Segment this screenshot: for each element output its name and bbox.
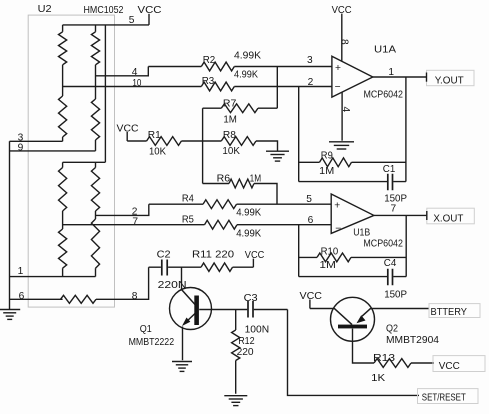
transistor Q2 [331, 297, 440, 346]
svg-text:1M: 1M [250, 173, 262, 184]
capacitor C3 [244, 293, 270, 335]
sensor bridge resistor (col A row 4) [59, 229, 67, 268]
wire R10 line [299, 256, 407, 258]
svg-text:7: 7 [132, 217, 138, 228]
svg-text:U1A: U1A [374, 44, 396, 55]
svg-text:U2: U2 [38, 4, 52, 15]
ground (Q1) [172, 362, 192, 372]
wire colB row1-row2 lead [95, 65, 97, 99]
wire U1B feedback vertical [405, 215, 407, 276]
svg-text:10K: 10K [149, 147, 166, 158]
wire pin 9 [10, 150, 96, 152]
resistor R8 [221, 130, 256, 157]
wire VCC to Q2 [310, 308, 334, 310]
svg-text:C3: C3 [244, 293, 258, 304]
svg-text:VCC: VCC [245, 250, 264, 261]
sensor bridge resistor (col B row 4) [91, 219, 99, 268]
IC body outline U2 [28, 15, 114, 307]
resistor R12 [232, 330, 255, 361]
svg-text:−: − [335, 224, 341, 235]
wire C4 line [299, 276, 407, 278]
svg-text:SET/RESET: SET/RESET [422, 392, 466, 403]
svg-text:U1B: U1B [353, 227, 370, 238]
SET/RESET port [418, 389, 479, 404]
wire pin 7 / R5 to opamp - [63, 224, 332, 226]
svg-text:100N: 100N [245, 324, 270, 335]
svg-text:BTTERY: BTTERY [431, 307, 468, 318]
capacitor C1 [383, 164, 407, 204]
VCC (R1) [117, 124, 139, 142]
resistor sensor strap [61, 295, 97, 303]
svg-text:C2: C2 [157, 250, 171, 261]
ground (U1A pin 4) [329, 142, 354, 149]
ground (R8) [266, 151, 289, 161]
capacitor C2 [157, 250, 187, 291]
svg-text:+: + [334, 200, 340, 211]
svg-text:R5: R5 [182, 214, 194, 225]
resistor R10 [317, 247, 351, 272]
wire colA row1-row2 lead [62, 65, 64, 96]
wire R6 line [203, 184, 277, 205]
wire pin 2 [96, 204, 149, 215]
svg-text:VCC: VCC [300, 291, 323, 302]
wire pin 10 / R3 to opamp - [63, 86, 332, 88]
wire pin 1 [10, 276, 96, 278]
svg-text:4: 4 [340, 107, 351, 113]
resistor R5 [182, 214, 261, 239]
svg-text:220: 220 [237, 347, 254, 358]
wire R11 to VCC [233, 266, 254, 268]
resistor R11 [192, 250, 234, 272]
svg-text:1K: 1K [371, 373, 385, 384]
sensor bridge resistor (col A row 1) [62, 25, 64, 32]
VCC (pin 5 supply) [138, 5, 162, 25]
resistor R2 [201, 50, 261, 71]
VCC (R11) [245, 250, 264, 267]
op-amp U1B [331, 194, 403, 250]
svg-text:Q1: Q1 [140, 324, 152, 335]
wire colB row3-row4 lead [95, 211, 97, 219]
svg-text:1M: 1M [223, 115, 237, 126]
sensor bridge resistor (col A row 3) [62, 162, 64, 167]
wire V2 [298, 87, 300, 182]
wire pin 8 [96, 267, 149, 299]
transistor Q1 [129, 288, 212, 348]
sensor bridge resistor (col B row 2) [91, 99, 99, 140]
svg-text:10: 10 [132, 78, 141, 89]
wire C1 line [299, 181, 406, 183]
svg-text:1M: 1M [319, 260, 336, 271]
capacitor C4 [384, 258, 407, 300]
svg-text:2: 2 [308, 77, 314, 88]
wire pin 4 [96, 67, 149, 76]
wire C2 line [149, 266, 201, 268]
svg-text:5: 5 [129, 15, 135, 26]
wire bridge2 top [63, 161, 106, 163]
wire R4 to opamp + [149, 203, 331, 205]
wire U1A output [373, 76, 427, 78]
wire Q2 base to R13 [353, 329, 375, 363]
VCC (Q2) [300, 291, 323, 309]
svg-text:C4: C4 [384, 258, 397, 269]
svg-text:MCP6042: MCP6042 [363, 239, 403, 250]
wire R9 line [299, 161, 406, 163]
op-amp U1A [332, 44, 403, 100]
VCC (U1A supply) [332, 5, 352, 62]
resistor R1 [147, 130, 182, 158]
wire bias node vertical [202, 108, 204, 183]
svg-text:4.99K: 4.99K [236, 207, 261, 218]
sensor bridge resistor (col A row 2) [59, 96, 67, 137]
resistor R4 [182, 193, 261, 218]
wire R8 line to ground [203, 141, 278, 151]
svg-text:MMBT2222: MMBT2222 [129, 337, 175, 348]
svg-text:150P: 150P [384, 289, 407, 300]
wire R13 to VCC port [411, 362, 434, 364]
VCC port [433, 356, 485, 372]
resistor R9 [319, 150, 351, 177]
wire Q1 base to C3 [199, 309, 247, 311]
X-OUT port [427, 208, 475, 224]
svg-text:7: 7 [391, 203, 397, 214]
resistor R7 [221, 98, 258, 125]
svg-text:R4: R4 [182, 193, 194, 204]
svg-text:4.99K: 4.99K [234, 50, 261, 61]
svg-text:1: 1 [388, 67, 394, 78]
svg-text:Q2: Q2 [386, 323, 398, 334]
wire R1 line [127, 140, 202, 142]
resistor R13 [371, 353, 411, 384]
wire colA row3-row4 lead [62, 211, 64, 229]
svg-text:1M: 1M [319, 166, 334, 177]
svg-text:R6: R6 [217, 173, 231, 184]
wire pin 6 [10, 298, 63, 300]
svg-text:VCC: VCC [439, 361, 460, 372]
wire U1B output [374, 214, 427, 216]
wire R7 line [203, 107, 278, 109]
svg-text:6: 6 [308, 215, 314, 226]
wire left ground rail [9, 141, 11, 309]
wire Q2 to BITERY [371, 308, 429, 310]
wire Q1 emitter [182, 327, 184, 361]
svg-text:10K: 10K [222, 146, 240, 157]
resistor R6 [217, 173, 262, 188]
svg-text:HMC1052: HMC1052 [84, 5, 124, 16]
ground (R12) [224, 396, 247, 406]
wire bridge top (pin 5 net) [63, 24, 149, 26]
svg-text:R11 220: R11 220 [192, 250, 234, 261]
svg-text:4.99K: 4.99K [234, 70, 258, 81]
resistor R3 [201, 70, 258, 91]
wire V3 [298, 225, 300, 277]
svg-text:4.99K: 4.99K [236, 228, 261, 239]
wire to SET/RESET [288, 310, 420, 396]
svg-text:3: 3 [307, 55, 313, 66]
wire R12 leads [235, 310, 237, 394]
wire C3 to corner [254, 309, 288, 311]
wire Q1 collector drop [181, 267, 183, 289]
svg-text:−: − [335, 82, 341, 93]
wire V1 [276, 67, 278, 109]
svg-text:9: 9 [18, 142, 24, 153]
Y-OUT port [427, 70, 475, 86]
svg-text:8: 8 [132, 291, 138, 302]
wire R2 to opamp + [148, 66, 332, 68]
BITERY port [429, 304, 480, 318]
svg-text:1: 1 [18, 266, 24, 277]
svg-text:MCP6042: MCP6042 [364, 89, 404, 100]
sensor bridge resistor (col B row 1) [95, 25, 97, 32]
svg-text:C1: C1 [383, 164, 396, 175]
svg-text:MMBT2904: MMBT2904 [386, 335, 439, 346]
wire pin 3 [10, 140, 63, 142]
ground (sensor) [0, 310, 20, 320]
wire U1A feedback vertical [405, 77, 407, 182]
wire bridge mid vertical [104, 25, 106, 162]
svg-text:X.OUT: X.OUT [433, 213, 463, 224]
svg-text:5: 5 [306, 194, 312, 205]
svg-text:6: 6 [19, 291, 25, 302]
wire U1A pin 4 stub [341, 92, 343, 140]
svg-text:8: 8 [339, 39, 350, 45]
svg-text:+: + [335, 63, 341, 74]
svg-text:Y.OUT: Y.OUT [435, 76, 464, 87]
sensor bridge resistor (col B row 3) [95, 162, 97, 167]
